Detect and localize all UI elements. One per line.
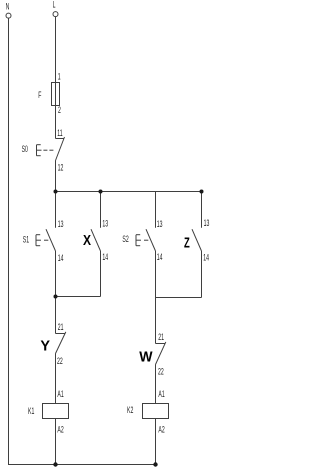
svg-text:Y: Y xyxy=(40,338,50,354)
svg-text:14: 14 xyxy=(203,252,209,263)
svg-text:22: 22 xyxy=(57,356,63,367)
svg-text:S0: S0 xyxy=(22,144,28,155)
svg-text:A1: A1 xyxy=(158,388,164,399)
svg-text:N: N xyxy=(6,1,10,12)
svg-text:A1: A1 xyxy=(57,388,63,399)
svg-text:14: 14 xyxy=(157,251,163,262)
svg-text:13: 13 xyxy=(204,218,210,229)
svg-text:14: 14 xyxy=(102,251,108,262)
svg-text:S2: S2 xyxy=(122,233,128,244)
svg-text:A2: A2 xyxy=(158,424,164,435)
svg-text:13: 13 xyxy=(58,218,64,229)
svg-text:21: 21 xyxy=(58,321,64,332)
svg-text:13: 13 xyxy=(102,218,108,229)
svg-text:11: 11 xyxy=(57,127,62,138)
svg-text:12: 12 xyxy=(58,162,64,173)
svg-text:A2: A2 xyxy=(57,424,63,435)
svg-text:14: 14 xyxy=(58,253,64,264)
svg-text:K2: K2 xyxy=(127,405,133,416)
svg-text:Z: Z xyxy=(184,234,190,251)
svg-text:W: W xyxy=(139,349,153,365)
svg-text:K1: K1 xyxy=(28,405,34,416)
svg-text:13: 13 xyxy=(157,219,163,230)
svg-text:1: 1 xyxy=(58,71,61,82)
svg-text:F: F xyxy=(38,89,41,100)
svg-text:S1: S1 xyxy=(23,234,29,245)
svg-text:2: 2 xyxy=(58,104,61,115)
svg-text:L: L xyxy=(53,0,56,10)
svg-text:21: 21 xyxy=(158,331,164,342)
svg-text:X: X xyxy=(83,232,91,248)
svg-text:22: 22 xyxy=(158,366,164,377)
